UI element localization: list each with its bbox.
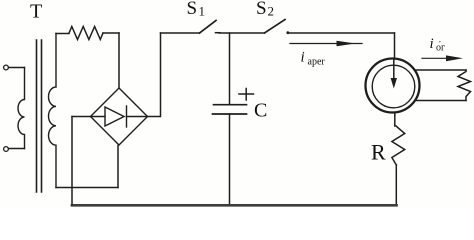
i_aper current arrow: [290, 43, 362, 45]
wire down to bridge top vertex: [118, 33, 120, 88]
wire resistor to bridge top node: [103, 32, 119, 34]
wire arc device bottom to R: [394, 113, 396, 127]
arc device inner circle: [372, 65, 415, 108]
resistor (top, unlabeled): [69, 27, 103, 40]
i_og label: [430, 36, 446, 54]
resistor R label: [371, 140, 386, 165]
transformer T label: [30, 0, 42, 22]
top rail S1 to S2: [219, 32, 265, 34]
transformer primary winding: [18, 68, 25, 149]
svg-text:S: S: [256, 0, 267, 19]
svg-text:aper: aper: [308, 57, 326, 68]
wire arc device to shunt resistor top: [415, 69, 466, 71]
svg-text:C: C: [254, 100, 267, 122]
svg-text:S: S: [187, 0, 198, 19]
terminal top-left: [4, 65, 9, 70]
wire left drop to bottom rail: [71, 117, 73, 205]
wire shunt resistor bottom to arc device: [415, 100, 466, 102]
top rail to S1: [161, 32, 200, 34]
wire bridge left vertex to left drop: [72, 116, 91, 118]
switch S1 label: [187, 0, 206, 19]
wire terminal to primary bottom: [8, 148, 24, 150]
switch S2 label: [256, 0, 274, 19]
capacitor C plates: [213, 105, 247, 114]
svg-text:1: 1: [199, 4, 206, 19]
resistor R: [392, 126, 405, 165]
arc device outer circle: [366, 59, 420, 113]
transformer core: [37, 40, 42, 192]
wire secondary top to resistor: [56, 33, 69, 35]
bottom rail: [72, 204, 397, 207]
capacitor C label: [254, 100, 267, 122]
svg-text:2: 2: [268, 4, 275, 19]
switch S2 blade: [265, 20, 286, 34]
wire terminal to primary top: [8, 67, 24, 69]
wire secondary bottom to bridge bottom vertex: [56, 187, 118, 189]
wire bridge bottom vertex down: [117, 146, 119, 188]
terminal bottom-left: [4, 147, 9, 152]
svg-text:T: T: [30, 0, 42, 22]
i_aper label: [301, 50, 326, 68]
arrow into arc device: [393, 59, 395, 79]
bridge diode D1: [91, 106, 148, 127]
capacitor plus sign: [239, 89, 254, 101]
i_og current arrow: [422, 57, 448, 59]
shunt resistor (right, unlabeled): [458, 70, 471, 101]
wire down to arc device: [394, 33, 396, 59]
switch S1 blade: [200, 21, 217, 34]
svg-text:i: i: [430, 36, 434, 52]
junction wire down to capacitor: [229, 33, 231, 104]
svg-text:i: i: [301, 50, 305, 66]
wire capacitor bottom to rail: [229, 114, 231, 205]
top rail S2 to right corner: [289, 32, 395, 34]
switch S2 right contact: [286, 31, 289, 34]
bridge rectifier diamond: [91, 88, 148, 145]
transformer secondary winding: [49, 34, 56, 188]
switch S1 right contact: [216, 32, 221, 34]
wire R to bottom rail: [395, 165, 397, 205]
wire bridge right vertex up to rail: [148, 33, 161, 117]
svg-text:R: R: [371, 140, 386, 165]
svg-text:о́г: о́г: [436, 41, 445, 54]
